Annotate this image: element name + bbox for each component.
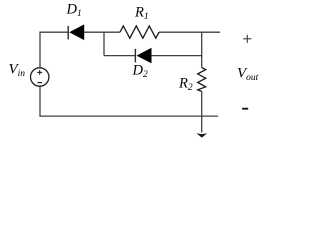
wire top rail left segment [39, 31, 68, 33]
ground [196, 133, 207, 137]
wire bottom rail [39, 115, 218, 117]
wire top rail right segment [159, 31, 220, 33]
wire right vertical top (top rail to R2) [201, 32, 203, 67]
wire D2 branch left segment [104, 55, 135, 57]
svg-text:R2: R2 [178, 76, 193, 94]
svg-text:Vout: Vout [237, 66, 259, 84]
wire right vertical bottom (R2 to ground) [201, 92, 203, 133]
svg-text:R1: R1 [134, 5, 149, 23]
resistor R1 [120, 26, 159, 38]
resistor R2 [198, 68, 206, 92]
diode D2 [135, 48, 151, 64]
wire left vertical bottom (source to bottom rail) [39, 86, 41, 116]
wire top rail middle segment [84, 31, 120, 33]
svg-text:D2: D2 [132, 62, 148, 80]
voltage source minus mark [37, 82, 42, 84]
svg-text:Vin: Vin [9, 62, 26, 80]
wire left vertical top (corner to source) [39, 32, 41, 68]
output plus terminal label [243, 35, 251, 43]
voltage source Vin circle [31, 68, 49, 86]
wire junction stub node A down to D2 branch [103, 32, 105, 55]
diode D1 [68, 24, 84, 40]
wire D2 branch right segment [152, 55, 203, 57]
output minus terminal label [242, 108, 248, 110]
voltage source plus mark [37, 70, 42, 75]
svg-text:D1: D1 [66, 2, 82, 20]
